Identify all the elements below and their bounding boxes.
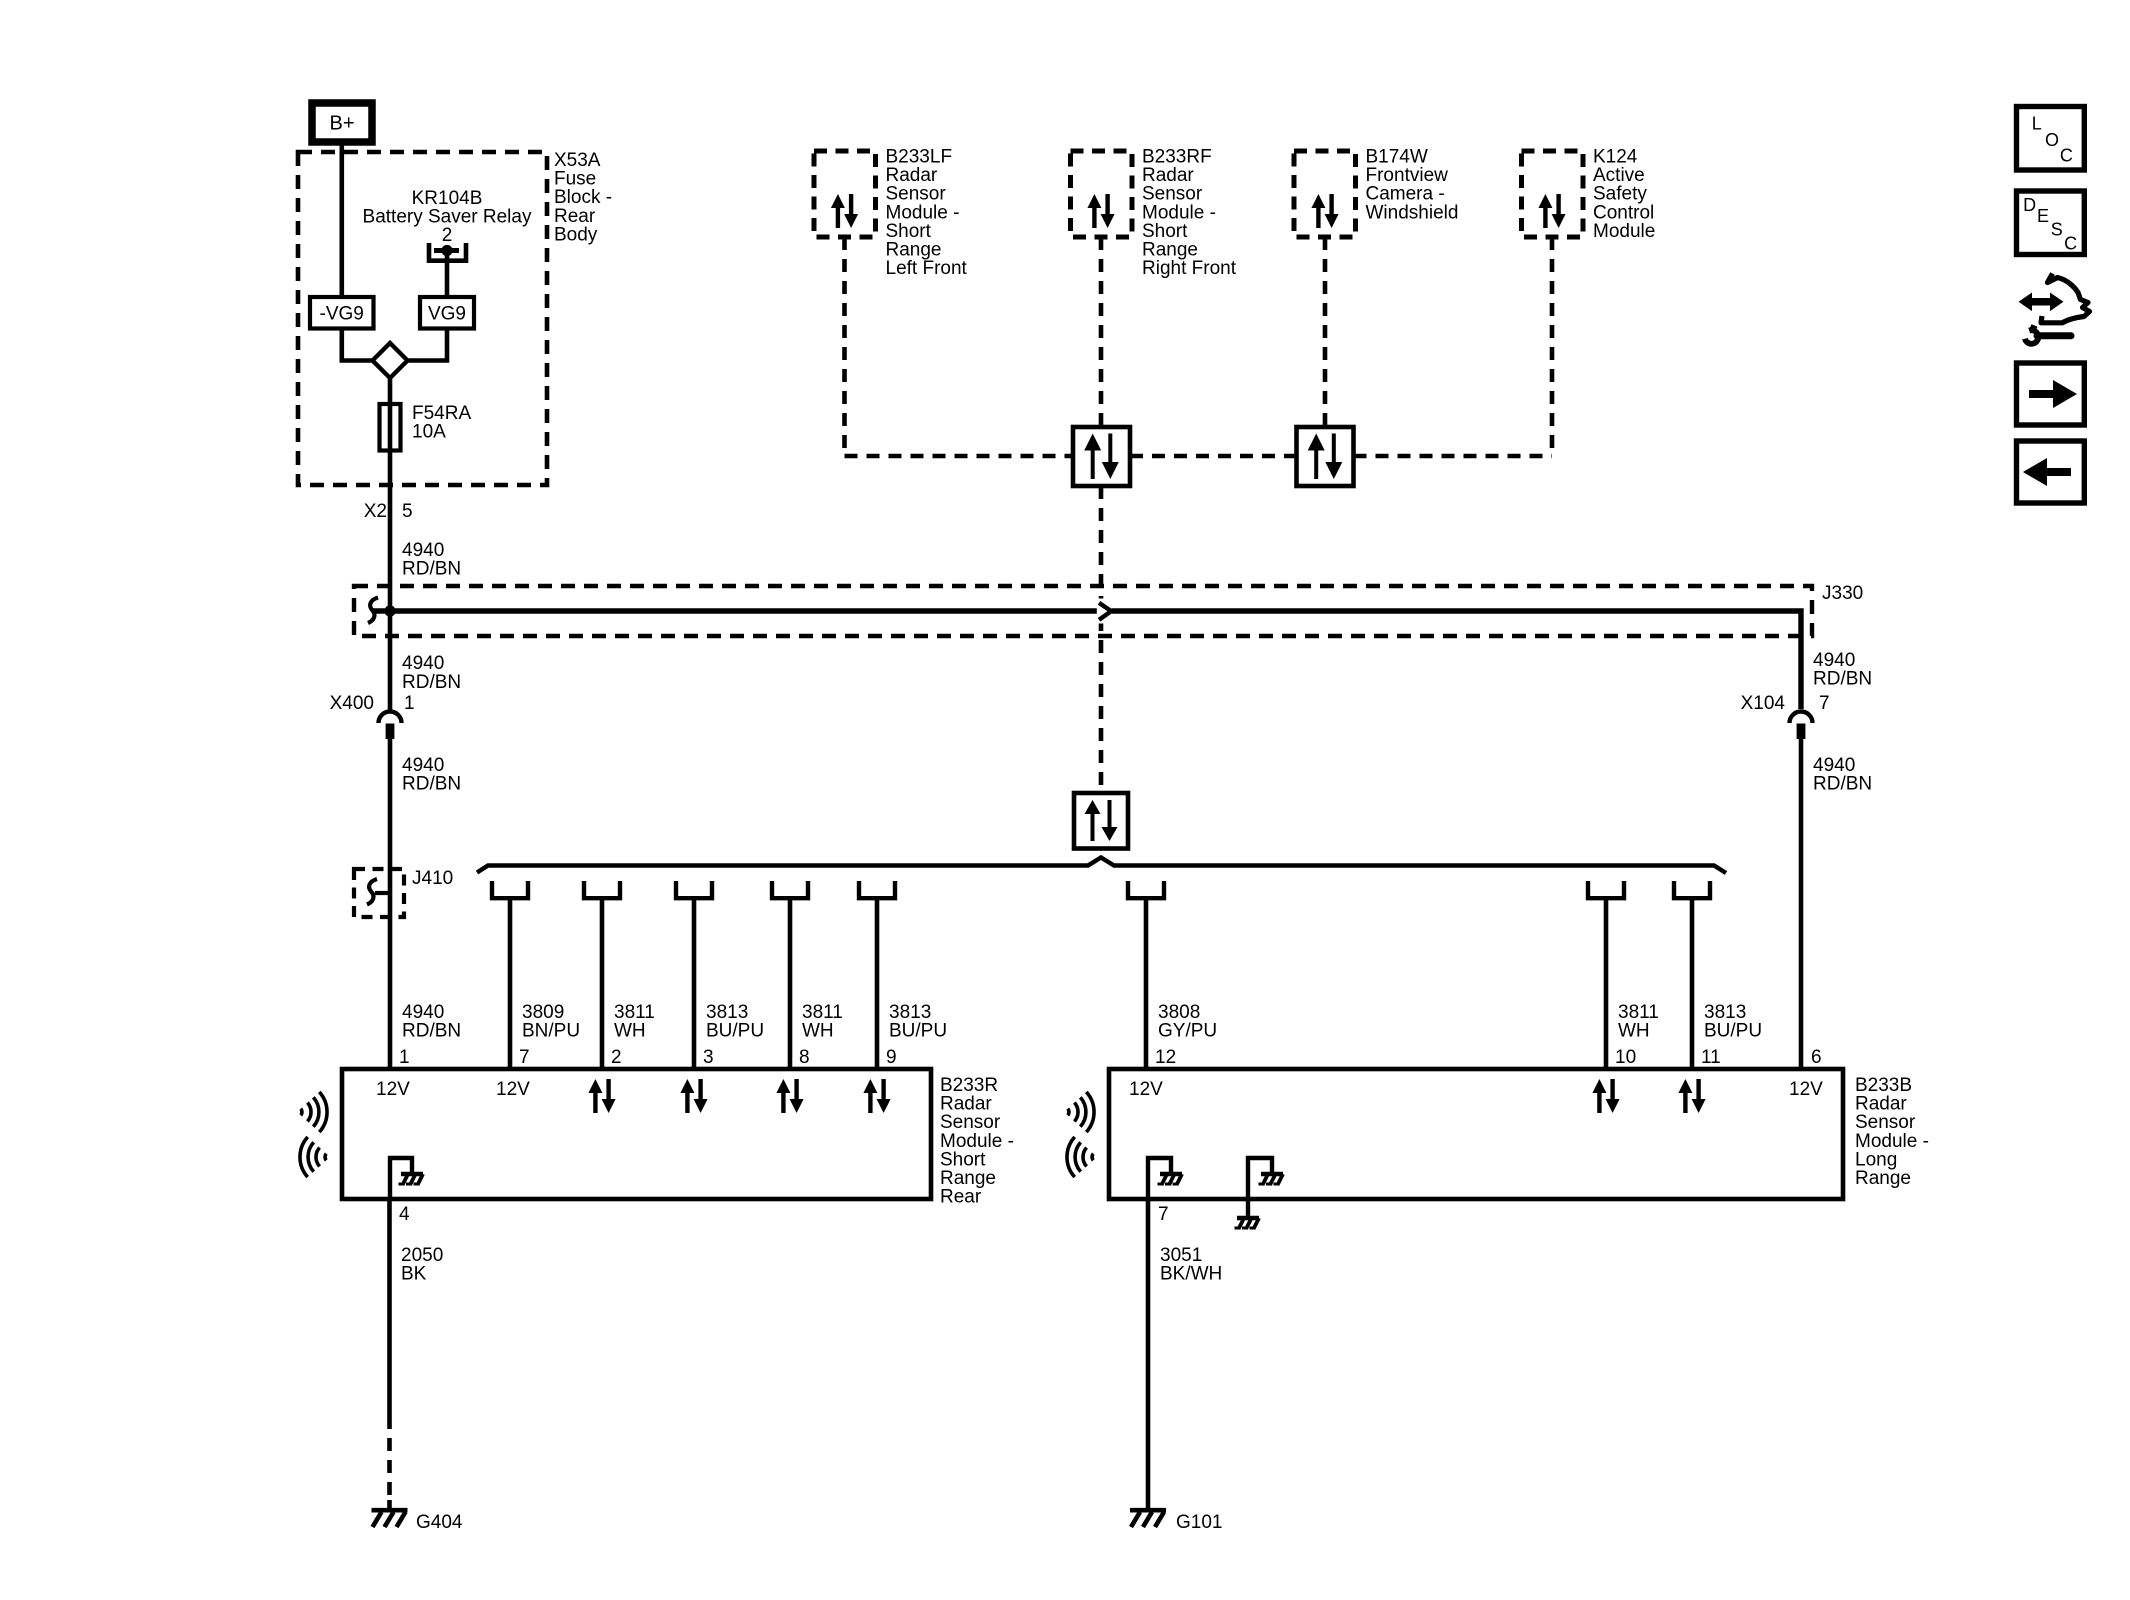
svg-text:C: C (2064, 234, 2077, 254)
wire 2050 BK solid (387, 1199, 392, 1416)
B233R 12V labels (376, 1079, 530, 1100)
svg-text:8: 8 (799, 1047, 810, 1068)
wire label 2050 BK (401, 1245, 443, 1285)
fuse block X53A dashed outline (298, 152, 547, 485)
wire J330 junction to X400 (388, 611, 393, 710)
fuse block terminal VG9 (420, 297, 474, 329)
serial data wire from B233LF (842, 237, 847, 456)
serial data bus segment junction to junction (1130, 454, 1297, 459)
svg-text:7: 7 (1158, 1204, 1169, 1225)
repair instructions icon (2019, 274, 2090, 344)
svg-text:Right Front: Right Front (1142, 258, 1237, 279)
wire label 3813 BU/PU pin 3 (703, 1002, 764, 1068)
svg-text:VG9: VG9 (428, 304, 466, 325)
svg-text:RD/BN: RD/BN (1813, 669, 1872, 690)
wire 3811 WH (1604, 898, 1609, 1069)
splice pack J330 dashed outline (354, 586, 1812, 636)
wire 3051 BK/WH (1146, 1199, 1151, 1508)
ground G101 (1130, 1510, 1222, 1533)
serial data wire from B174W (1323, 237, 1328, 427)
svg-text:1: 1 (399, 1047, 410, 1068)
svg-text:1: 1 (404, 693, 415, 714)
connector X2 pin 5 labels (364, 501, 413, 522)
svg-text:BU/PU: BU/PU (706, 1021, 764, 1042)
pin connector for circuit 3811 (772, 881, 808, 898)
module B233LF label (886, 147, 968, 280)
serial data wire from B233RF (1099, 237, 1104, 427)
B233B 12V labels (1129, 1079, 1823, 1100)
wire 3811 WH (788, 898, 793, 1069)
svg-text:WH: WH (1618, 1021, 1650, 1042)
module B233RF dashed box (1071, 151, 1133, 237)
LOC nav box (2017, 107, 2085, 171)
wire label 3811 WH pin 2 (611, 1002, 655, 1068)
svg-text:J410: J410 (412, 868, 453, 889)
B233R label (940, 1075, 1014, 1208)
wire -VG9 to splice diamond (342, 329, 373, 361)
svg-text:GY/PU: GY/PU (1158, 1021, 1217, 1042)
bus direction arrow (1097, 599, 1112, 624)
fuse F54RA label (412, 403, 471, 443)
svg-text:12V: 12V (376, 1079, 410, 1100)
svg-text:12V: 12V (1129, 1079, 1163, 1100)
pin connector for circuit 3808 (1128, 881, 1164, 898)
inline connector X400 pin 1 labels (330, 693, 415, 714)
wire 3809 BN/PU (508, 898, 513, 1069)
svg-text:B+: B+ (329, 113, 354, 135)
power distribution line (477, 858, 1726, 874)
wire 3813 BU/PU (1690, 898, 1695, 1069)
wire label 4940 RD/BN pin 1 (399, 1002, 461, 1068)
svg-text:Left Front: Left Front (886, 258, 968, 279)
pin connector for circuit 3813 (859, 881, 895, 898)
svg-text:3: 3 (703, 1047, 714, 1068)
B233B internal ground (case) (1248, 1158, 1283, 1216)
inline connector X104 pin 7 labels (1741, 693, 1830, 714)
wire label 4940 RD/BN (J330 to X400) (402, 653, 461, 693)
serial data bus segment B233LF to junction (845, 454, 1074, 459)
DESC nav box (2017, 191, 2085, 255)
B233B internal ground pin 7 (1148, 1158, 1182, 1199)
serial data junction box (right) (1297, 427, 1354, 486)
pin connector for circuit 3811 (584, 881, 620, 898)
svg-text:RD/BN: RD/BN (402, 774, 461, 795)
pin connector for circuit 3813 (1674, 881, 1710, 898)
module K124 dashed box (1522, 151, 1584, 237)
svg-text:G404: G404 (416, 1512, 463, 1533)
previous page arrow box (2017, 441, 2085, 503)
wire 3813 BU/PU (692, 898, 697, 1069)
power feed B+ (312, 103, 372, 142)
module B174W label (1366, 147, 1459, 224)
wire 3811 WH (600, 898, 605, 1069)
splice pack J330 lead squiggle (368, 598, 378, 624)
pin connector for circuit 3813 (676, 881, 712, 898)
svg-text:C: C (2060, 146, 2073, 166)
svg-text:X400: X400 (330, 693, 374, 714)
wire label 3813 BU/PU pin 11 (1701, 1002, 1762, 1068)
wire relay to VG9 (445, 252, 450, 297)
power bus wire in J330 to X104 (372, 611, 1801, 709)
wire label 3809 BN/PU pin 7 (519, 1002, 580, 1068)
svg-text:RD/BN: RD/BN (402, 672, 461, 693)
wire label 3811 WH pin 8 (799, 1002, 843, 1068)
relay contact KR104B pin 2 (429, 243, 466, 261)
svg-text:12V: 12V (496, 1079, 530, 1100)
svg-text:Range: Range (1855, 1168, 1911, 1189)
serial data junction box (left) (1073, 427, 1130, 486)
svg-text:S: S (2051, 220, 2063, 240)
svg-text:Body: Body (554, 224, 598, 245)
svg-text:RD/BN: RD/BN (402, 1021, 461, 1042)
serial data wire to rear junction (1099, 486, 1104, 793)
radar sensor module B233R box (342, 1069, 931, 1199)
module B233RF label (1142, 147, 1237, 280)
svg-text:10A: 10A (412, 422, 446, 443)
B233R internal ground (390, 1158, 423, 1199)
splice J410 squiggle and stub (367, 879, 390, 905)
svg-text:G101: G101 (1176, 1512, 1222, 1533)
wire X400 to B233R pin 1 (388, 739, 393, 1069)
module B174W dashed box (1294, 151, 1356, 237)
svg-text:Rear: Rear (940, 1187, 982, 1208)
svg-text:2: 2 (442, 225, 453, 246)
radar sensor module B233B box (1109, 1069, 1843, 1199)
B233B radar waves icon (1067, 1092, 1094, 1177)
svg-text:6: 6 (1811, 1047, 1822, 1068)
svg-text:-VG9: -VG9 (320, 304, 364, 325)
pin connector for circuit 3809 (492, 881, 528, 898)
svg-text:BU/PU: BU/PU (889, 1021, 947, 1042)
battery saver relay KR104B label (363, 188, 532, 246)
wire diamond through fuse F54RA to J330 (388, 378, 393, 611)
B233B label (1855, 1075, 1929, 1189)
fuse F54RA (380, 404, 401, 451)
svg-text:RD/BN: RD/BN (402, 559, 461, 580)
wire 3808 GY/PU (1144, 898, 1149, 1069)
module B233LF dashed box (814, 151, 876, 237)
wire label 4940 RD/BN (fuse block to J330) (402, 540, 461, 580)
junction at J330 (384, 605, 395, 616)
wire label 3808 GY/PU pin 12 (1155, 1002, 1217, 1068)
wire B+ to -VG9 (339, 142, 344, 297)
fuse block X53A label (554, 150, 612, 245)
svg-text:WH: WH (614, 1021, 646, 1042)
serial data bus segment junction to K124 (1354, 454, 1553, 459)
svg-text:5: 5 (402, 501, 413, 522)
wire label 3813 BU/PU pin 9 (886, 1002, 947, 1068)
svg-text:X104: X104 (1741, 693, 1786, 714)
module K124 label (1593, 147, 1655, 242)
splice J410 dashed outline (354, 869, 404, 917)
svg-text:4: 4 (399, 1204, 410, 1225)
wire X104 to B233B pin 6 (1799, 739, 1804, 1069)
svg-text:2: 2 (611, 1047, 622, 1068)
svg-text:12: 12 (1155, 1047, 1176, 1068)
svg-text:WH: WH (802, 1021, 834, 1042)
wire label 4940 RD/BN (J330 to X104) (1813, 650, 1872, 690)
svg-text:BN/PU: BN/PU (522, 1021, 580, 1042)
svg-text:10: 10 (1615, 1047, 1636, 1068)
inline connector X104 (1790, 712, 1813, 740)
svg-text:BU/PU: BU/PU (1704, 1021, 1762, 1042)
wire label 3051 BK/WH (1160, 1245, 1222, 1285)
svg-text:Module: Module (1593, 221, 1655, 242)
svg-text:O: O (2045, 130, 2059, 150)
next page arrow box (2017, 363, 2085, 425)
ground G404 (372, 1500, 463, 1533)
B233R serial data arrows (588, 1079, 890, 1113)
svg-text:7: 7 (1819, 693, 1830, 714)
wire label 4940 RD/BN (X104 to B233B) (1813, 755, 1872, 795)
B233B case ground symbol (1237, 1216, 1259, 1220)
pin connector for circuit 3811 (1588, 881, 1624, 898)
svg-text:7: 7 (519, 1047, 530, 1068)
svg-text:J330: J330 (1822, 583, 1863, 604)
svg-text:12V: 12V (1789, 1079, 1823, 1100)
fuse block terminal -VG9 (310, 297, 374, 329)
wire 3813 BU/PU (875, 898, 880, 1069)
wire label 3811 WH pin 10 (1615, 1002, 1659, 1068)
svg-text:BK/WH: BK/WH (1160, 1264, 1222, 1285)
svg-text:D: D (2023, 195, 2036, 215)
svg-text:RD/BN: RD/BN (1813, 774, 1872, 795)
svg-text:Windshield: Windshield (1366, 202, 1459, 223)
svg-text:9: 9 (886, 1047, 897, 1068)
wire VG9 to splice diamond (408, 329, 448, 361)
svg-text:E: E (2037, 206, 2049, 226)
svg-text:11: 11 (1701, 1047, 1721, 1068)
B233B serial data arrows (1592, 1079, 1705, 1113)
wire 2050 BK dashed (387, 1416, 392, 1500)
serial data junction box (lower) (1074, 793, 1128, 849)
B233R radar waves icon (300, 1092, 327, 1177)
svg-text:BK: BK (401, 1264, 427, 1285)
splice diamond (373, 343, 408, 378)
serial data wire from K124 (1550, 237, 1555, 456)
svg-text:X2: X2 (364, 501, 387, 522)
inline connector X400 (379, 712, 402, 740)
wire label 4940 RD/BN (X400 to B233R) (402, 755, 461, 795)
svg-text:L: L (2032, 114, 2042, 134)
svg-text:4940: 4940 (402, 653, 444, 674)
